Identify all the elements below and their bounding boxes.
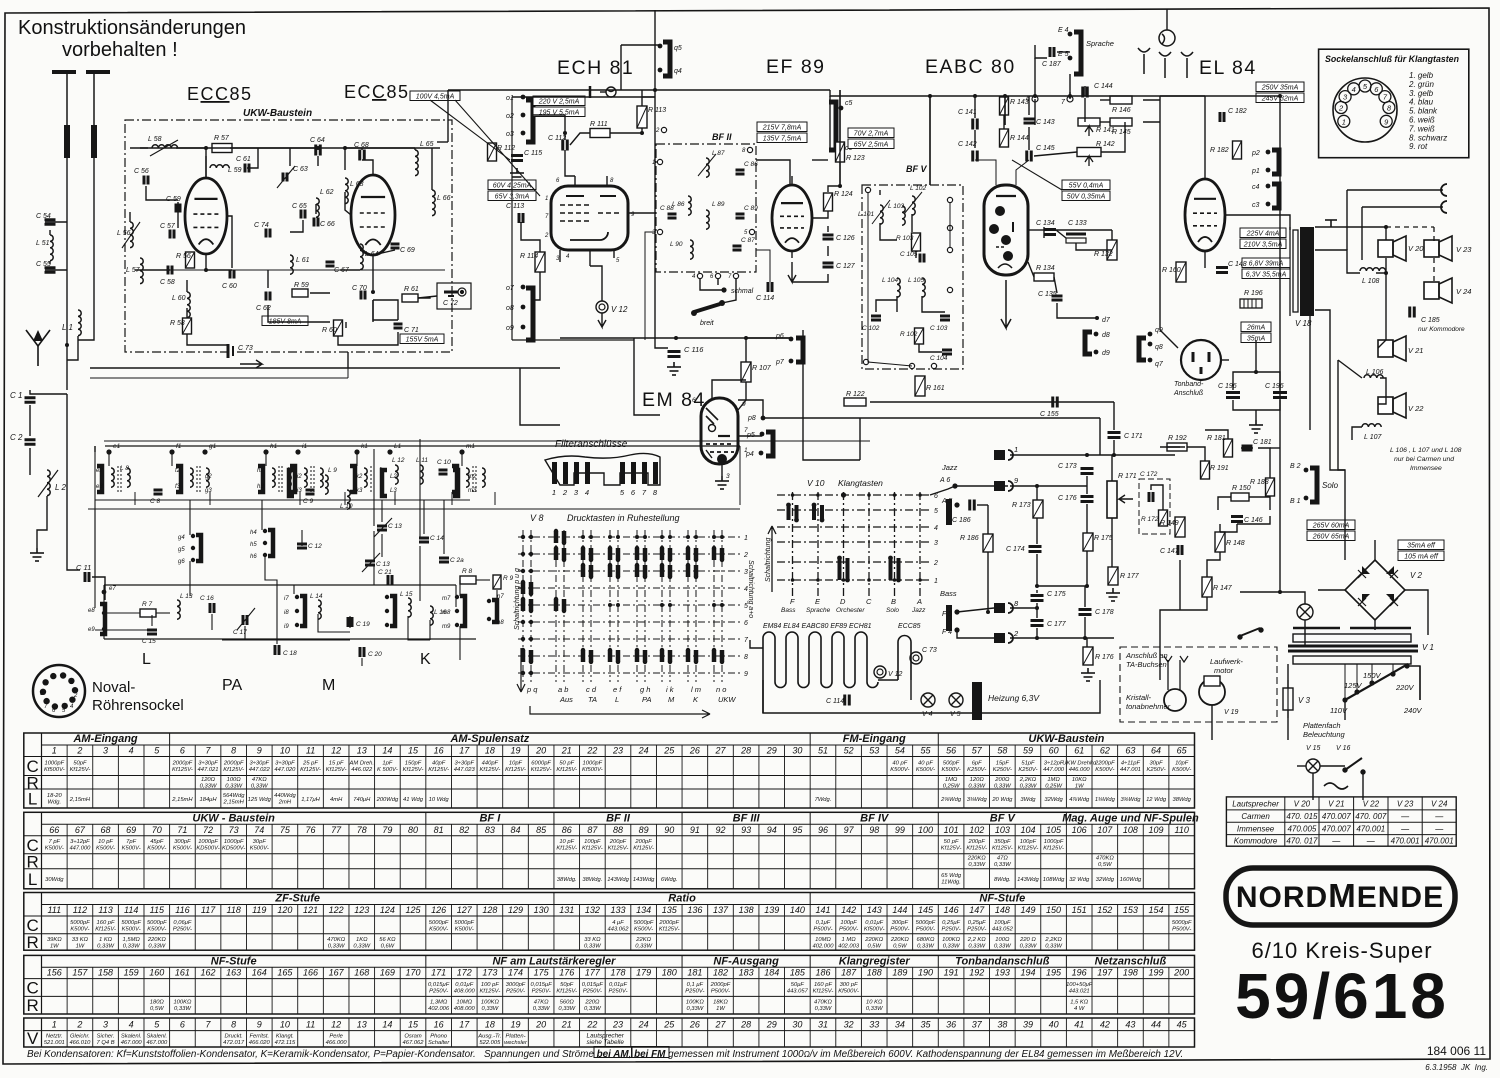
svg-text:127: 127 (457, 905, 473, 915)
svg-text:260V 65mA: 260V 65mA (1312, 534, 1350, 541)
svg-text:2,15mH: 2,15mH (223, 800, 245, 806)
svg-text:13: 13 (357, 1020, 367, 1030)
BFV pin 6 (947, 197, 952, 202)
svg-text:R 188: R 188 (1250, 479, 1269, 486)
svg-text:10MΩ: 10MΩ (456, 1000, 472, 1006)
wire drop 655 lower (655, 97, 668, 348)
wire (459, 626, 461, 660)
svg-text:447.023: 447.023 (454, 767, 476, 773)
wire R9 col (496, 590, 498, 600)
junction (1035, 606, 1039, 610)
drucktasten contact c3r8 (583, 650, 591, 662)
coil T m secondary (482, 468, 485, 487)
capacitor C9 (306, 490, 315, 494)
svg-text:156: 156 (47, 968, 62, 978)
wire (373, 332, 398, 345)
transformer T m (452, 466, 457, 492)
coil T e (L8) secondary (127, 468, 130, 487)
svg-text:470. 007: 470. 007 (1355, 812, 1387, 821)
svg-text:470. 017: 470. 017 (1286, 836, 1318, 845)
svg-text:UKW-Baustein: UKW-Baustein (1028, 733, 1104, 745)
wire (94, 509, 96, 577)
svg-text:100Ω: 100Ω (995, 937, 1010, 943)
contact dot d9 (1094, 350, 1099, 355)
wire tube2 top (362, 160, 373, 175)
svg-text:30: 30 (792, 746, 802, 756)
socket pin 5 (1359, 80, 1371, 92)
svg-text:B 2: B 2 (1290, 463, 1301, 470)
svg-text:L 51: L 51 (36, 240, 50, 247)
svg-text:V 16: V 16 (1336, 745, 1351, 752)
wire (1160, 446, 1180, 448)
wire L101 down (880, 223, 897, 240)
jack 8 (994, 603, 1005, 613)
switch group h4 h5 h6 (268, 530, 273, 556)
svg-text:L 1: L 1 (62, 323, 73, 332)
svg-text:24: 24 (638, 746, 649, 756)
svg-text:Sockelanschluß für Klangtasten: Sockelanschluß für Klangtasten (1325, 54, 1459, 64)
svg-text:C 71: C 71 (404, 327, 419, 334)
svg-text:BF III: BF III (733, 812, 761, 824)
coil L105 (922, 278, 925, 297)
svg-text:FM-Eingang: FM-Eingang (843, 733, 906, 745)
wire band bus y639 (104, 638, 476, 640)
svg-text:0,1 μF: 0,1 μF (687, 982, 704, 988)
svg-text:3: 3 (934, 540, 938, 547)
wire C143 up (1028, 96, 1030, 115)
svg-text:C 187: C 187 (1042, 61, 1062, 68)
speaker V23 (1424, 236, 1452, 261)
selector tap 110V (1342, 697, 1347, 702)
label meas 185V 8mA (262, 316, 308, 326)
svg-text:2mH: 2mH (278, 800, 292, 806)
svg-text:76: 76 (306, 825, 316, 835)
svg-text:0,33W: 0,33W (968, 783, 985, 789)
svg-text:68: 68 (101, 825, 111, 835)
svg-text:L2: L2 (390, 474, 397, 480)
capacitor C66 (314, 218, 318, 227)
wire EM84 pin7 (738, 435, 762, 437)
svg-text:0,06μF: 0,06μF (173, 920, 191, 926)
svg-text:168: 168 (354, 968, 369, 978)
svg-text:9: 9 (744, 671, 748, 678)
svg-text:BF V: BF V (990, 812, 1017, 824)
wire (476, 579, 490, 581)
capacitor C146 (1231, 517, 1243, 522)
svg-text:0,33W: 0,33W (123, 944, 140, 950)
wire to tonband (1160, 330, 1178, 348)
svg-text:155: 155 (1174, 905, 1190, 915)
svg-text:1: 1 (52, 746, 57, 756)
svg-text:160 pF: 160 pF (814, 982, 833, 988)
fuse V3 (1283, 680, 1293, 718)
svg-text:153: 153 (1123, 905, 1138, 915)
coil L11 (420, 465, 423, 484)
svg-text:BF II: BF II (712, 132, 732, 142)
svg-text:C 54: C 54 (36, 213, 51, 220)
wire (1028, 262, 1034, 277)
svg-text:o7: o7 (506, 285, 515, 292)
wire (347, 352, 349, 368)
svg-text:100Ω: 100Ω (227, 777, 242, 783)
svg-text:105 mA eff: 105 mA eff (1404, 554, 1439, 561)
svg-text:440pF: 440pF (482, 761, 499, 767)
contact stack o7 o8 o9 (526, 288, 533, 340)
arrow down (788, 262, 796, 282)
svg-text:C 13: C 13 (388, 523, 402, 530)
wire to L108 (1315, 250, 1360, 273)
svg-text:140: 140 (790, 905, 805, 915)
svg-text:5: 5 (154, 1020, 160, 1030)
svg-text:C 142: C 142 (958, 141, 977, 148)
junction (1035, 636, 1039, 640)
tube ECC85 a (185, 178, 227, 254)
wire L51-C55 (49, 261, 51, 264)
svg-text:L 63: L 63 (350, 181, 364, 188)
wire R147 down (1160, 597, 1207, 680)
contact E4 E5 Sprache (1074, 32, 1081, 74)
jack 6 (1032, 96, 1038, 102)
svg-text:521.001: 521.001 (44, 1040, 65, 1046)
svg-text:P500V-: P500V- (813, 926, 832, 932)
svg-text:—: — (1366, 836, 1376, 845)
svg-text:7: 7 (728, 274, 732, 280)
svg-text:467.000: 467.000 (121, 1040, 143, 1046)
svg-text:92: 92 (715, 825, 725, 835)
svg-text:5000pF: 5000pF (70, 920, 90, 926)
svg-text:K500V-: K500V- (942, 767, 961, 773)
svg-text:L: L (28, 870, 37, 889)
wire BFV right side (949, 203, 951, 247)
wire (985, 680, 1100, 713)
svg-text:0,33W: 0,33W (225, 783, 242, 789)
svg-text:L 104: L 104 (882, 277, 899, 284)
svg-text:R 146: R 146 (1112, 107, 1131, 114)
wire (792, 274, 828, 282)
pin 1 (657, 159, 662, 164)
svg-text:Orchester: Orchester (836, 607, 865, 614)
capacitor C55 (45, 268, 56, 273)
contact dot e9 (102, 627, 106, 631)
wire (1362, 772, 1364, 800)
svg-text:1,5 KΩ: 1,5 KΩ (1070, 1000, 1089, 1006)
wire k1 vertical (373, 449, 375, 526)
svg-text:65: 65 (1177, 746, 1188, 756)
svg-text:30pF: 30pF (253, 839, 267, 845)
svg-text:2: 2 (76, 1020, 82, 1030)
svg-text:192: 192 (969, 968, 984, 978)
svg-text:Kf125V-: Kf125V- (1043, 845, 1064, 851)
lamp lamp V4 (921, 693, 935, 707)
svg-text:137: 137 (713, 905, 729, 915)
svg-text:R 176: R 176 (1095, 654, 1114, 661)
wire o2 to C112 (533, 115, 565, 140)
svg-text:470.001: 470.001 (1425, 836, 1454, 845)
svg-text:4. blau: 4. blau (1409, 98, 1434, 107)
svg-text:443.062: 443.062 (608, 926, 630, 932)
svg-text:1: 1 (1342, 117, 1346, 126)
svg-text:6: 6 (180, 1020, 185, 1030)
svg-text:R 160: R 160 (1162, 267, 1181, 274)
wire (1100, 99, 1110, 101)
wire (791, 251, 793, 258)
grid antenna circle (1159, 30, 1175, 46)
svg-text:R 8: R 8 (462, 568, 473, 575)
capacitor C115 (511, 156, 523, 161)
svg-text:141: 141 (815, 905, 830, 915)
svg-text:Sicher.: Sicher. (97, 1034, 115, 1040)
svg-text:165: 165 (277, 968, 293, 978)
heater bus bar (972, 682, 982, 720)
svg-text:Kf125V-: Kf125V- (659, 926, 680, 932)
svg-text:402.003: 402.003 (838, 944, 860, 950)
drucktasten row 7 (518, 638, 740, 640)
svg-text:Tonband-: Tonband- (1174, 381, 1204, 388)
contact dot m9 (455, 623, 459, 627)
svg-text:5000pF: 5000pF (121, 920, 141, 926)
svg-text:P250V-: P250V- (942, 926, 961, 932)
jack 7 (1067, 96, 1073, 102)
wire C141-C142 (974, 130, 976, 148)
svg-text:1: 1 (70, 680, 73, 686)
C73 marker b (910, 652, 922, 664)
klangtasten contact B (891, 558, 899, 580)
resistor R57 (212, 144, 232, 153)
capacitor C60 (230, 270, 234, 279)
svg-text:125: 125 (406, 905, 422, 915)
wire C102 up (876, 300, 897, 312)
coil L87 (706, 158, 709, 177)
svg-text:NF-Stufe: NF-Stufe (979, 893, 1025, 905)
klangtasten contact D (840, 558, 848, 580)
svg-text:E 4: E 4 (1058, 27, 1069, 34)
schmal contact (721, 287, 726, 292)
svg-text:Kf125V-: Kf125V- (70, 767, 91, 773)
wire C19 up (349, 616, 351, 628)
svg-text:C 134: C 134 (1036, 220, 1055, 227)
capacitor C104 (942, 350, 952, 354)
svg-text:L 60: L 60 (172, 295, 186, 302)
svg-text:466.020: 466.020 (249, 1040, 271, 1046)
svg-text:157: 157 (72, 968, 88, 978)
svg-text:8: 8 (744, 654, 748, 661)
svg-text:3÷30pF: 3÷30pF (198, 761, 218, 767)
svg-text:199: 199 (1149, 968, 1164, 978)
selector lever (1345, 664, 1408, 700)
svg-text:8: 8 (653, 488, 658, 497)
wire top rail right (830, 90, 1160, 96)
junction (1068, 94, 1072, 98)
svg-text:Kf125V-: Kf125V- (1018, 845, 1039, 851)
svg-text:144: 144 (892, 905, 907, 915)
contact dot q7 (1148, 358, 1153, 363)
svg-text:Anschluß: Anschluß (1173, 390, 1203, 397)
wire (437, 141, 448, 143)
svg-text:Tonbandanschluß: Tonbandanschluß (955, 955, 1050, 967)
svg-text:UKW - Baustein: UKW - Baustein (192, 812, 275, 824)
svg-text:l m: l m (691, 685, 701, 694)
svg-text:32 Wdg: 32 Wdg (1069, 877, 1090, 883)
lamp dial lamp (1297, 604, 1313, 620)
resistor R192 (1167, 443, 1187, 451)
svg-text:2000pF: 2000pF (710, 982, 731, 988)
svg-text:K500V-: K500V- (147, 845, 166, 851)
junction (640, 131, 644, 135)
klangtasten column 3 (843, 492, 845, 596)
wire (828, 186, 840, 192)
svg-text:f3: f3 (175, 484, 181, 490)
svg-text:0,33W: 0,33W (943, 944, 960, 950)
coil L10 (347, 490, 350, 509)
contact dot m8 (455, 609, 459, 613)
speaker V21 (1378, 336, 1406, 361)
svg-text:200pF: 200pF (967, 839, 985, 845)
wire C113-R114 (521, 222, 540, 252)
resistor R145 (1110, 118, 1132, 126)
svg-text:Kommodore: Kommodore (1234, 836, 1278, 845)
contact dot p6 (789, 337, 794, 342)
svg-text:C 13: C 13 (376, 561, 390, 568)
ground C115 (510, 168, 524, 181)
svg-text:82: 82 (459, 825, 469, 835)
coil T f/g secondary (206, 468, 209, 487)
wire tap 240 (1406, 664, 1408, 666)
capacitor C102 (871, 316, 881, 320)
contact dot p5 (760, 432, 765, 437)
svg-text:EL 84: EL 84 (1199, 57, 1257, 79)
drucktasten row 6 (518, 621, 740, 623)
svg-text:220KΩ: 220KΩ (967, 855, 987, 861)
svg-text:118: 118 (226, 905, 240, 915)
resistor R113 (637, 106, 647, 128)
wire riser 135 (134, 492, 136, 505)
svg-text:35mA eff: 35mA eff (1407, 543, 1436, 550)
svg-text:220KΩ: 220KΩ (890, 937, 910, 943)
switch group m7 m8 m9 (460, 596, 465, 626)
svg-text:45: 45 (1177, 1020, 1188, 1030)
junction (1035, 484, 1039, 488)
svg-text:98: 98 (869, 825, 879, 835)
svg-text:23: 23 (612, 1020, 623, 1030)
wire jack out2 (1362, 206, 1443, 208)
svg-text:60: 60 (1049, 746, 1059, 756)
mains transformer V1 (1288, 634, 1418, 664)
contact dot B1 (1304, 496, 1309, 501)
svg-text:Immensee: Immensee (1410, 465, 1442, 472)
svg-text:Ratio: Ratio (668, 893, 696, 905)
svg-text:0,01μF: 0,01μF (609, 982, 627, 988)
svg-text:77: 77 (331, 825, 342, 835)
svg-text:1. gelb: 1. gelb (1409, 71, 1434, 80)
junction (563, 131, 567, 135)
svg-text:C 186: C 186 (952, 517, 971, 524)
wire C13 col (381, 500, 383, 522)
wire to V21 (1378, 273, 1386, 348)
contact dot g6 (191, 558, 195, 562)
wire BFII to C114 (756, 250, 770, 282)
capacitor C62 (266, 292, 270, 301)
svg-text:447.000: 447.000 (1043, 767, 1065, 773)
svg-text:28: 28 (740, 746, 751, 756)
svg-text:g3: g3 (205, 488, 212, 494)
svg-text:h3: h3 (257, 484, 264, 490)
contact dot h6 (263, 553, 267, 557)
svg-text:k3: k3 (356, 488, 363, 494)
svg-text:466.010: 466.010 (69, 1040, 91, 1046)
antenna terminal T1 (52, 72, 76, 125)
svg-text:q9: q9 (1155, 327, 1163, 334)
wire (94, 500, 96, 608)
svg-text:Schaltrichtung a+o: Schaltrichtung a+o (747, 560, 754, 618)
wire rail 586 (1037, 585, 1087, 587)
svg-text:102: 102 (969, 825, 984, 835)
contact dot p1 (1266, 168, 1271, 173)
switch group e7 e8 e9 (100, 604, 105, 634)
svg-text:C 178: C 178 (1095, 609, 1114, 616)
svg-text:siehe Tabelle: siehe Tabelle (586, 1039, 624, 1046)
svg-text:53: 53 (869, 746, 879, 756)
svg-text:4⅞Wdg: 4⅞Wdg (1069, 797, 1090, 803)
svg-text:7 pF: 7 pF (49, 839, 61, 845)
resistor R58 (183, 318, 192, 334)
wire R58 to C73 (187, 334, 228, 345)
svg-text:43: 43 (1125, 1020, 1135, 1030)
svg-text:UKW: UKW (718, 695, 736, 704)
svg-text:F: F (790, 597, 795, 606)
svg-text:120Ω: 120Ω (201, 777, 216, 783)
wire bottom run b (338, 336, 373, 345)
svg-text:178: 178 (610, 968, 625, 978)
svg-text:155V 5mA: 155V 5mA (406, 337, 439, 344)
svg-text:184μH: 184μH (200, 797, 218, 803)
wire (1249, 496, 1270, 498)
BFV pin 2 (863, 359, 868, 364)
svg-text:L: L (615, 695, 619, 704)
svg-text:11: 11 (306, 1020, 315, 1030)
svg-text:V 4: V 4 (922, 711, 933, 718)
resistor R175 (1083, 533, 1093, 551)
svg-text:K500V-: K500V- (890, 767, 909, 773)
capacitor C127 (823, 263, 834, 267)
svg-text:P500V-: P500V- (839, 926, 858, 932)
svg-text:C 16: C 16 (200, 595, 214, 602)
svg-text:300pF: 300pF (174, 839, 191, 845)
resistor R143 (1000, 97, 1009, 115)
svg-text:50 pF: 50 pF (559, 761, 574, 767)
svg-text:7Wdg.: 7Wdg. (815, 797, 832, 803)
coil L57 (140, 258, 143, 284)
svg-text:m7: m7 (442, 596, 451, 602)
svg-text:P250V-: P250V- (967, 926, 986, 932)
wire dashed V24 drop (1433, 258, 1435, 285)
svg-text:C 19: C 19 (356, 621, 370, 628)
drucktasten contact c1r4 (523, 582, 531, 594)
svg-text:179: 179 (636, 968, 651, 978)
svg-text:Klangt.: Klangt. (276, 1034, 294, 1040)
svg-text:P250V-: P250V- (506, 989, 525, 995)
svg-text:4: 4 (1352, 85, 1356, 94)
wire (812, 211, 828, 218)
svg-text:P250V-: P250V- (685, 989, 704, 995)
wire (171, 452, 173, 466)
T bar above V18 (1325, 220, 1337, 227)
svg-text:7: 7 (744, 637, 749, 644)
svg-text:C 12: C 12 (308, 543, 322, 550)
svg-text:h2: h2 (257, 468, 264, 474)
BFV pin 1 (865, 187, 870, 192)
capacitor C187 (1050, 47, 1054, 57)
wire drop 930b (929, 96, 931, 185)
